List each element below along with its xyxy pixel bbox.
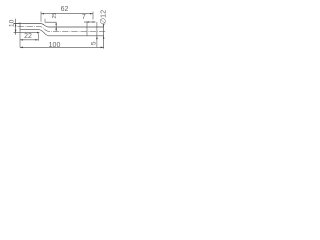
dim 25 ext tick at x45 <box>44 19 46 23</box>
svg-text:10: 10 <box>9 19 16 27</box>
dim 100 line <box>20 46 104 48</box>
dim 10 top ext to part <box>14 23 20 25</box>
arrow on 10-ext pointing right at bend <box>37 32 40 34</box>
arrow 10 top <box>15 24 17 27</box>
part right end vertical + dia12 dim line + 100 ext <box>103 26 105 49</box>
svg-text:5: 5 <box>90 41 97 45</box>
part bottom edge: flat, S-bend down, rod bottom <box>20 30 104 36</box>
svg-text:∅12: ∅12 <box>98 10 107 25</box>
arrow dia12 bottom <box>103 36 105 39</box>
feature vertical x=96.9 crossing rod down to 100-dim <box>96 22 98 47</box>
arrow dim 25 pointing down at centerline <box>55 29 57 32</box>
centerline dash-dot through flat, bend, rod <box>18 27 106 32</box>
dim 62 left ext <box>40 12 42 22</box>
arrow 10 bottom <box>15 30 17 33</box>
arrow dim 5 pointing up at rod bottom <box>96 36 98 39</box>
svg-text:100: 100 <box>49 42 61 49</box>
dim 10 vertical line <box>15 19 17 35</box>
arrow 100 left <box>20 47 23 49</box>
svg-text:7: 7 <box>82 14 86 21</box>
arrow 7 left pointing left <box>86 21 89 23</box>
dim 25 vertical with arrow to centerline <box>55 22 57 31</box>
arrow 22 left <box>20 39 23 41</box>
part top edge: flat, S-bend down, rod top <box>14 24 104 28</box>
arrow dim 25 pointing up at ext <box>55 22 57 25</box>
svg-text:25: 25 <box>52 13 58 19</box>
dim 10 bottom ext line toward bend <box>14 32 38 34</box>
svg-text:62: 62 <box>61 6 69 13</box>
feature vertical x=87 crossing rod <box>86 22 88 36</box>
svg-text:22: 22 <box>24 33 32 40</box>
dim 22 right ext <box>37 34 39 41</box>
dim 22 line <box>20 39 38 41</box>
arrow dia12 top <box>103 24 105 27</box>
dim 25 ext horizontal <box>45 21 56 23</box>
part left end vertical <box>19 22 21 29</box>
arrow 62 right <box>90 13 93 15</box>
dim 62 right ext <box>92 12 94 20</box>
left ext vertical x=20 for 22 and 100 dims <box>19 30 21 48</box>
dim 7 line <box>84 21 96 23</box>
arrow 7 right pointing right <box>93 21 96 23</box>
dim 62 line <box>41 13 93 15</box>
arrow 62 left <box>41 13 44 15</box>
arrow 100 right <box>101 47 104 49</box>
arrow 22 right <box>35 39 38 41</box>
